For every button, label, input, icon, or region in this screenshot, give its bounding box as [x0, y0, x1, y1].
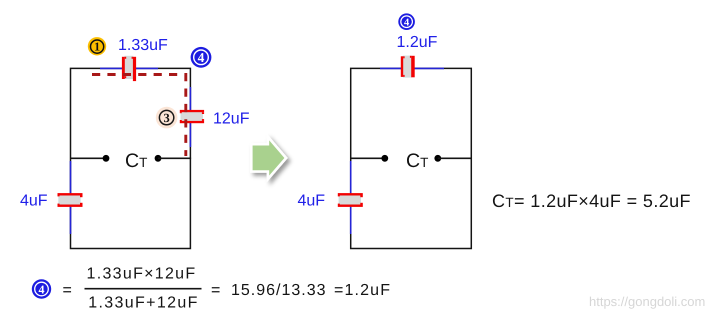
left circuit loop wire [71, 68, 191, 248]
svg-text:CT= 1.2uF×4uF = 5.2uF: CT= 1.2uF×4uF = 5.2uF [492, 191, 691, 211]
capacitor 1.2uF (top of right circuit) [401, 56, 415, 78]
node dot left of CT (right circuit) [381, 155, 388, 162]
node dot right of CT [155, 155, 162, 162]
svg-text:15.96/13.33: 15.96/13.33 [231, 282, 327, 299]
svg-text:=1.2uF: =1.2uF [334, 282, 391, 299]
capacitor C3 12uF (right branch of left circuit) [180, 110, 204, 123]
node CT label (right circuit) [406, 150, 428, 172]
formula fraction bar [85, 288, 202, 290]
wire blue lead top (C1) [100, 67, 158, 69]
svg-text:1.33uF+12uF: 1.33uF+12uF [88, 295, 198, 312]
label 1.2uF [397, 34, 438, 51]
wire CT left segment (right circuit) [351, 157, 382, 159]
svg-text:4: 4 [198, 50, 205, 65]
capacitor C2 4uF (left branch of left circuit) [58, 193, 83, 207]
badge circled 3 [156, 107, 178, 129]
label 12uF [213, 111, 250, 128]
transform arrow [253, 140, 285, 175]
formula result [211, 282, 391, 299]
svg-text:12uF: 12uF [213, 111, 250, 128]
node dot left of CT [103, 155, 110, 162]
svg-text:4uF: 4uF [20, 193, 48, 210]
svg-text:1.33uF: 1.33uF [118, 37, 168, 54]
badge circled 4 (left circuit) [191, 47, 212, 68]
formula denominator [88, 295, 198, 312]
formula equals sign [63, 282, 72, 299]
right circuit loop wire [351, 68, 472, 248]
wire blue lead right (C3) [189, 87, 191, 147]
svg-text:1.33uF×12uF: 1.33uF×12uF [87, 266, 197, 283]
wire CT left segment [70, 157, 104, 159]
svg-text:=: = [211, 282, 220, 299]
formula numerator [87, 266, 197, 283]
svg-text:4: 4 [39, 282, 45, 296]
svg-text:=: = [63, 282, 72, 299]
dashed highlight path (series loop) [92, 75, 186, 157]
svg-text:4uF: 4uF [298, 193, 326, 210]
watermark [589, 294, 705, 309]
badge circled 4 (formula) [32, 279, 51, 298]
capacitor C1 1.33uF (top of left circuit) [122, 56, 136, 81]
svg-text:1: 1 [94, 40, 100, 54]
label 4uF (left circuit) [20, 193, 48, 210]
label 4uF (right circuit) [298, 193, 326, 210]
wire blue lead left (C 4uF right circuit) [350, 161, 352, 234]
badge circled 4 (right circuit) [398, 13, 415, 30]
svg-text:4: 4 [404, 17, 410, 28]
wire CT right segment (right circuit) [438, 157, 472, 159]
svg-text:https://gongdoli.com: https://gongdoli.com [589, 294, 705, 309]
capacitor 4uF (left branch of right circuit) [338, 193, 363, 207]
node dot right of CT (right circuit) [434, 155, 441, 162]
node CT label (left circuit) [125, 150, 147, 172]
wire CT right segment [158, 157, 191, 159]
svg-text:1.2uF: 1.2uF [397, 34, 438, 51]
equation CT result [492, 191, 691, 211]
svg-text:3: 3 [163, 111, 169, 125]
label 1.33uF [118, 37, 168, 54]
wire blue lead left (C 4uF) [70, 161, 72, 234]
wire blue lead top (C 1.2uF) [380, 67, 444, 69]
badge circled 1 [88, 37, 106, 55]
